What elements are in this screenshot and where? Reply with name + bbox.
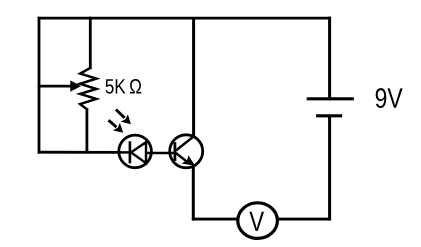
- photodiode D1 circle: [119, 135, 152, 168]
- wire potentiometer top lead: [89, 18, 92, 68]
- light arrow 1 upper: [116, 110, 131, 125]
- battery B1 long plate positive: [307, 97, 354, 100]
- transistor Q1 base bar: [173, 142, 176, 161]
- wire collector to top rail: [192, 18, 195, 136]
- transistor Q1 emitter arrowhead: [182, 155, 196, 166]
- label 9V: [376, 88, 403, 108]
- wire photodiode internal left: [118, 151, 130, 154]
- transistor Q1 collector diagonal: [176, 137, 194, 151]
- wire voltmeter to battery: [279, 218, 330, 221]
- battery B1 short plate negative: [316, 114, 342, 117]
- label 5K ohm: [106, 79, 142, 94]
- voltmeter M1 circle: [238, 203, 278, 239]
- photodiode D1 triangle: [131, 142, 146, 163]
- wire bottom-left rail: [39, 151, 118, 154]
- light arrow 2 lower: [109, 120, 124, 132]
- wire potentiometer bottom lead: [86, 109, 89, 152]
- resistor R1 potentiometer zigzag: [80, 68, 96, 109]
- voltmeter M1 label V: [249, 212, 264, 231]
- wire top rail: [39, 17, 330, 20]
- wire battery top lead: [328, 18, 331, 99]
- potentiometer wiper arrowhead: [70, 80, 81, 91]
- wire bottom rail to voltmeter: [193, 218, 236, 221]
- wire battery bottom lead: [328, 116, 331, 219]
- wire potentiometer wiper arm: [39, 85, 72, 88]
- wire emitter down: [192, 168, 195, 220]
- wire left rail: [38, 18, 41, 152]
- photodiode D1 cathode bar: [129, 141, 132, 163]
- wire photodiode to transistor base: [146, 152, 175, 155]
- transistor Q1 circle: [170, 135, 203, 168]
- transistor Q1 emitter diagonal: [176, 153, 189, 163]
